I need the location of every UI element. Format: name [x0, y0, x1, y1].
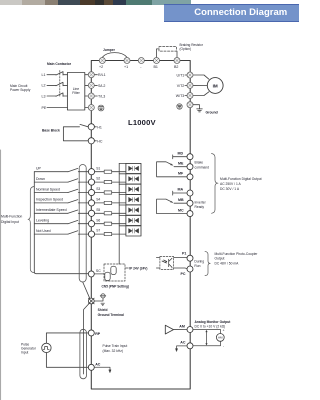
- terminal minus: [138, 58, 144, 64]
- svg-text:S1: S1: [96, 166, 100, 170]
- opto common vertical: [118, 163, 120, 264]
- resistor input S7: [104, 233, 112, 236]
- contactor linkage dashed: [59, 71, 61, 98]
- svg-text:Leveling: Leveling: [36, 219, 49, 223]
- input row S1 UP: [34, 163, 141, 174]
- svg-text:DC 48V / 50 mA: DC 48V / 50 mA: [215, 261, 240, 265]
- optocoupler input S1: [126, 163, 141, 173]
- terminal W/T3: [187, 93, 193, 99]
- svg-text:HC: HC: [97, 140, 103, 144]
- optocoupler input S4: [126, 195, 141, 205]
- wire SC to CN5 box: [94, 273, 104, 275]
- svg-text:Main Contactor: Main Contactor: [47, 62, 72, 66]
- terminal stubs R,S,T labels: [94, 75, 97, 96]
- switch S4: [68, 200, 78, 203]
- wire filter to R/L1: [85, 75, 88, 108]
- svg-text:(Max. 32 kHz): (Max. 32 kHz): [103, 349, 124, 353]
- svg-text:AM: AM: [179, 325, 185, 329]
- svg-text:AC: AC: [180, 340, 186, 344]
- resistor input S5: [104, 212, 112, 215]
- svg-text:Digital Input: Digital Input: [1, 220, 19, 224]
- earth stub control AC: [94, 367, 110, 370]
- resistor input S1: [104, 170, 112, 173]
- CN5 jumper dashed box: [104, 264, 125, 281]
- svg-text:L3: L3: [42, 94, 46, 98]
- terminal PC: [187, 266, 193, 272]
- svg-text:Filter: Filter: [72, 91, 80, 95]
- common wire vertical: [34, 172, 88, 274]
- input row S3 Nominal Speed: [34, 184, 141, 195]
- terminal MA: [187, 190, 193, 196]
- svg-text:Run: Run: [194, 264, 200, 268]
- terminal MD: [187, 154, 193, 160]
- svg-text:PC: PC: [181, 272, 186, 276]
- input row S6 Leveling: [34, 215, 141, 226]
- jumper shunt upper: [111, 266, 116, 274]
- svg-text:MB: MB: [178, 198, 184, 202]
- svg-text:CN5 (PNP Setting): CN5 (PNP Setting): [102, 285, 130, 289]
- resistor input S6: [104, 222, 112, 225]
- wire V/T2 to motor: [193, 84, 207, 86]
- svg-text:RP: RP: [95, 332, 101, 336]
- terminal H1: [88, 124, 94, 130]
- svg-text:L1: L1: [42, 73, 46, 77]
- svg-text:IP 24V (24V): IP 24V (24V): [129, 266, 147, 270]
- wire to optocoupler S7: [95, 226, 126, 234]
- svg-text:SC: SC: [96, 269, 101, 273]
- svg-text:B2: B2: [174, 65, 178, 69]
- wire input row S2: [34, 181, 88, 183]
- contactor blade L2: [56, 82, 67, 85]
- svg-text:During: During: [194, 260, 204, 264]
- terminal S2: [88, 179, 94, 185]
- terminal S7: [88, 231, 94, 237]
- drive enclosure outline: [91, 61, 190, 390]
- svg-text:Nominal Speed: Nominal Speed: [36, 187, 60, 191]
- switch S1: [68, 168, 78, 171]
- svg-text:MF: MF: [178, 172, 184, 176]
- svg-text:+: +: [223, 329, 225, 333]
- photocoupler internals: [162, 258, 172, 268]
- wire L1: [47, 74, 56, 76]
- shield ground screw: [100, 294, 106, 298]
- wire to optocoupler S5: [95, 205, 126, 213]
- terminal +1: [124, 58, 130, 64]
- wire AM to meter: [193, 330, 221, 334]
- blue title banner: [164, 4, 300, 22]
- terminal strip stadium: [79, 165, 86, 283]
- terminal B1: [154, 58, 160, 64]
- contactor blade L3: [56, 93, 67, 96]
- wire to optocoupler S3: [95, 184, 126, 192]
- svg-text:Analog Monitor Output: Analog Monitor Output: [195, 320, 232, 324]
- svg-text:U/T1: U/T1: [177, 74, 185, 78]
- input row S7 Not Used: [34, 226, 141, 237]
- photocoupler brace: [205, 251, 210, 275]
- svg-text:DC 0 to +10 V (2 kΩ): DC 0 to +10 V (2 kΩ): [195, 325, 226, 329]
- terminal ME: [187, 164, 193, 170]
- terminal AM: [187, 327, 193, 333]
- svg-text:S7: S7: [96, 229, 100, 233]
- svg-text:-: -: [140, 65, 142, 69]
- terminal MC: [187, 211, 193, 217]
- photocoupler stubs: [156, 258, 187, 269]
- svg-text:Not Used: Not Used: [36, 229, 51, 233]
- small ground mark: [101, 303, 105, 305]
- svg-text:Shield: Shield: [98, 308, 108, 312]
- svg-text:Inspection Speed: Inspection Speed: [36, 198, 63, 202]
- svg-text:Multi-Function Digital Output: Multi-Function Digital Output: [220, 177, 262, 181]
- terminal S3: [88, 189, 94, 195]
- wire U/T1 to motor: [193, 75, 209, 79]
- svg-text:-: -: [223, 344, 224, 348]
- photocoupler dashed box: [160, 257, 174, 270]
- svg-text:Multi-Function Photo-Coupler: Multi-Function Photo-Coupler: [215, 252, 259, 256]
- wire input row S3: [34, 192, 88, 194]
- contactor blade L1: [56, 72, 67, 75]
- shield junction: [88, 298, 94, 304]
- line filter box: [67, 73, 84, 111]
- terminal S5: [88, 210, 94, 216]
- svg-text:MA: MA: [178, 188, 184, 192]
- svg-text:Multi-Function: Multi-Function: [1, 215, 22, 219]
- input row S4 Inspection Speed: [34, 195, 141, 206]
- svg-text:Base Block: Base Block: [42, 128, 60, 132]
- terminal MB: [187, 200, 193, 206]
- svg-text:command: command: [195, 165, 210, 169]
- terminal P1: [187, 255, 193, 261]
- voltage double arrow: [206, 332, 208, 344]
- switch S5: [68, 210, 78, 213]
- relay 1 contact wires: [157, 155, 188, 177]
- svg-text:Output: Output: [215, 256, 225, 260]
- terminal PE screw: [88, 105, 94, 111]
- input row S2 Down: [34, 174, 141, 185]
- svg-text:S6: S6: [96, 218, 100, 222]
- svg-text:Jumper: Jumper: [103, 48, 116, 52]
- switch S2: [68, 179, 78, 182]
- svg-text:(Option): (Option): [180, 47, 192, 51]
- braking resistor wires: [157, 49, 178, 58]
- relay 2 contact wires: [157, 191, 188, 213]
- resistor input S3: [104, 191, 112, 194]
- wire junction to shield ground screw: [94, 298, 103, 301]
- terminal S1: [88, 169, 94, 175]
- svg-text:Inverter: Inverter: [195, 201, 207, 205]
- svg-text:S5: S5: [96, 208, 100, 212]
- wire to ground symbol: [193, 105, 200, 109]
- optocoupler input S5: [126, 205, 141, 215]
- svg-text:S3: S3: [96, 187, 100, 191]
- terminal MF: [187, 174, 193, 180]
- terminal +2: [99, 58, 105, 64]
- terminal AC control: [88, 364, 94, 370]
- switch S6: [68, 220, 78, 223]
- input row S5 Intermediate Speed: [34, 205, 141, 216]
- ground symbol: [197, 109, 203, 112]
- ground screw circle left of bus: [177, 104, 182, 109]
- terminal T/L3: [88, 93, 94, 99]
- svg-text:Intermediate Speed: Intermediate Speed: [36, 208, 67, 212]
- input group brace: [28, 187, 34, 273]
- wire to optocoupler S6: [95, 215, 126, 223]
- svg-text:AC: AC: [95, 363, 101, 367]
- terminal S6: [88, 221, 94, 227]
- resistor input S4: [104, 201, 112, 204]
- wire L3: [47, 95, 56, 97]
- svg-text:MC: MC: [178, 208, 184, 212]
- resistor input S2: [104, 181, 112, 184]
- wire L2: [47, 84, 56, 86]
- base block loop wire: [63, 127, 88, 141]
- svg-text:Power Supply: Power Supply: [10, 88, 31, 92]
- digital output brace: [212, 154, 219, 214]
- svg-text:ME: ME: [178, 161, 184, 165]
- terminal B2: [174, 58, 180, 64]
- svg-text:+1: +1: [124, 65, 128, 69]
- svg-text:Down: Down: [36, 177, 45, 181]
- wire amp to AM: [174, 329, 188, 331]
- pulse generator wires: [46, 333, 88, 367]
- motor IM: [207, 78, 223, 94]
- terminal RP: [88, 330, 94, 336]
- svg-text:AC 250V / 1 A: AC 250V / 1 A: [220, 182, 242, 186]
- jumper bracket: [102, 53, 127, 58]
- svg-text:Ground Terminal: Ground Terminal: [98, 313, 124, 317]
- svg-text:+2: +2: [99, 65, 103, 69]
- wire input row S6: [34, 223, 88, 225]
- page edge line: [0, 150, 2, 400]
- svg-text:B1: B1: [154, 65, 158, 69]
- svg-text:V/T2: V/T2: [177, 84, 185, 88]
- terminal U/T1: [187, 72, 193, 78]
- svg-text:Ground: Ground: [206, 110, 218, 114]
- shield drain wire: [84, 303, 90, 375]
- photo strip top: [0, 0, 22, 5]
- switch blade H1: [80, 124, 88, 126]
- optocoupler input S3: [126, 184, 141, 194]
- svg-text:L2: L2: [42, 84, 46, 88]
- svg-text:IM: IM: [213, 83, 218, 88]
- wire to optocoupler S4: [95, 195, 126, 203]
- svg-text:H1: H1: [97, 126, 102, 130]
- svg-text:Pulse Train Input: Pulse Train Input: [103, 344, 128, 348]
- svg-text:PE: PE: [42, 106, 47, 110]
- svg-text:R/L1: R/L1: [98, 73, 106, 77]
- wire strip to shield junction: [83, 282, 90, 299]
- pulse generator circle: [42, 343, 51, 352]
- svg-text:S2: S2: [96, 177, 100, 181]
- optocoupler input S2: [126, 174, 141, 184]
- svg-text:T/L3: T/L3: [98, 95, 105, 99]
- svg-text:MD: MD: [178, 151, 184, 155]
- amplifier triangle: [165, 325, 173, 334]
- optocoupler input S7: [126, 226, 141, 236]
- ground screw circle beside PE: [98, 105, 104, 111]
- jumper shunt lower: [105, 272, 110, 280]
- wire input row S5: [34, 212, 88, 214]
- AM meter: [216, 334, 224, 342]
- svg-text:W/T3: W/T3: [176, 94, 185, 98]
- stub to 24V label: [125, 267, 128, 269]
- terminal R/L1: [88, 72, 94, 78]
- svg-text:DC 30V / 1 A: DC 30V / 1 A: [220, 187, 240, 191]
- svg-text:L1000V: L1000V: [128, 118, 157, 127]
- wire W/T3 to motor: [193, 92, 209, 96]
- svg-text:P1: P1: [182, 252, 186, 256]
- wire input row S7: [34, 233, 88, 235]
- svg-text:S/L2: S/L2: [98, 84, 105, 88]
- braking resistor dashed box: [159, 47, 177, 52]
- switch S7: [68, 231, 78, 234]
- terminal S4: [88, 200, 94, 206]
- terminal V/T2: [187, 82, 193, 88]
- optocoupler input S6: [126, 215, 141, 225]
- terminal ground: [187, 102, 193, 108]
- earth stub analog AC: [177, 346, 187, 349]
- wire AC to meter: [193, 341, 221, 346]
- terminal AC analog: [187, 343, 193, 349]
- svg-text:Brake: Brake: [195, 161, 204, 165]
- svg-text:Input: Input: [21, 351, 28, 355]
- svg-text:UP: UP: [36, 167, 42, 171]
- terminal SC: [88, 269, 101, 277]
- wire to optocoupler S1: [95, 163, 126, 171]
- terminal S/L2: [88, 82, 94, 88]
- wire PE: [47, 107, 67, 109]
- svg-text:AM: AM: [218, 336, 223, 340]
- switch S3: [68, 189, 78, 192]
- svg-text:Ready: Ready: [195, 205, 205, 209]
- svg-text:S4: S4: [96, 198, 100, 202]
- wire input row S4: [34, 202, 88, 204]
- terminal HC: [88, 138, 94, 144]
- wire input row S1: [34, 171, 88, 173]
- wire to optocoupler S2: [95, 174, 126, 182]
- shield oval: [80, 329, 87, 379]
